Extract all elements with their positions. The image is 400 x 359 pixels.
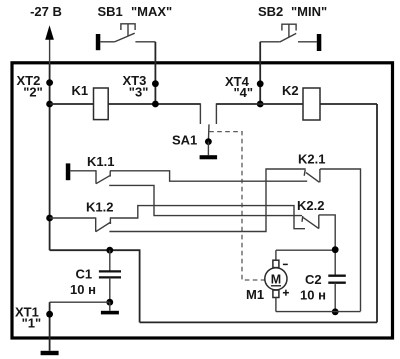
wire bus XT2 to K1 coil: [50, 103, 94, 105]
wire SB1 right lead: [135, 41, 155, 43]
node SA1: [205, 138, 212, 145]
svg-text:SB2: SB2: [258, 4, 283, 19]
capacitor C1: [99, 250, 121, 302]
label minus: [283, 263, 288, 265]
wire K1.1 upper to K2.1 lower-left: [110, 171, 307, 181]
node XT1: [46, 311, 53, 318]
mechanical link SA1 to M1 (dashed): [209, 132, 265, 280]
node K1.2 left junction: [46, 215, 53, 222]
svg-text:-27 В: -27 В: [30, 4, 62, 19]
chassis bar under C1: [101, 302, 119, 314]
wire SB1 down to XT3: [154, 42, 156, 104]
border frame of unit: [12, 63, 393, 338]
svg-text:K1.1: K1.1: [87, 154, 114, 169]
button SB1 terminal bar: [96, 34, 101, 50]
svg-text:10 н: 10 н: [70, 282, 96, 297]
svg-text:"4": "4": [234, 85, 254, 100]
svg-text:SA1: SA1: [172, 133, 197, 148]
relay coil K2: [303, 88, 320, 120]
svg-text:K1: K1: [72, 83, 89, 98]
relay coil K1: [94, 88, 109, 120]
svg-text:K2: K2: [282, 83, 299, 98]
wire XT1 vertical: [49, 302, 51, 351]
svg-text:K1.2: K1.2: [86, 200, 113, 215]
node XT4: [257, 80, 264, 87]
wire bottom rail: [140, 321, 377, 323]
node XT4 bus junction: [257, 101, 264, 108]
svg-text:M: M: [271, 272, 281, 286]
contact K1.1 terminal bar: [66, 163, 71, 180]
svg-text:10 н: 10 н: [300, 288, 326, 303]
wire K1.2 lower to K2.1 upper-left: [109, 169, 305, 232]
wire K2.2 right down to C2 top node: [319, 215, 335, 276]
wire SB2 left lead: [260, 41, 280, 43]
contact SB2 movable: [280, 33, 297, 42]
switch SA1 right fixed contact: [215, 103, 217, 124]
supply arrow: [45, 25, 54, 64]
switch SA1 stem and bar: [200, 142, 218, 160]
wire motor bottom line: [276, 311, 361, 313]
wire bus K1 coil to SA1 left: [108, 103, 200, 105]
ground XT1: [41, 351, 59, 355]
wire motor top line: [276, 249, 335, 251]
svg-text:M1: M1: [246, 287, 264, 302]
wire bus K2 coil to right drop: [320, 103, 377, 105]
node C1 top: [106, 247, 113, 254]
node C2 bottom: [332, 308, 339, 315]
wire SB2 right lead: [298, 41, 317, 43]
switch SA1 movable contact: [207, 124, 210, 141]
wire -27V left rail vertical: [49, 64, 51, 250]
button SB2 terminal bar: [317, 34, 322, 51]
wire XT1 to C1 bottom: [50, 301, 110, 303]
svg-text:K2.2: K2.2: [297, 198, 324, 213]
node C2 top: [332, 246, 339, 253]
wire K2.1 right to motor lower line: [320, 169, 361, 311]
contact K1.2: [50, 217, 111, 231]
label plus: [283, 290, 289, 296]
svg-text:C1: C1: [76, 267, 93, 282]
contact K1.1: [70, 170, 110, 184]
svg-text:"MIN": "MIN": [291, 4, 327, 19]
contact SB1 movable: [114, 33, 135, 42]
motor M1: [265, 250, 287, 311]
capacitor C2: [328, 276, 346, 312]
wire SB1 left lead: [100, 41, 114, 43]
node XT3: [152, 80, 159, 87]
svg-text:"2": "2": [23, 85, 43, 100]
node XT2 bus junction: [46, 101, 53, 108]
wire right rail down from K2 coil: [376, 104, 378, 322]
button SB2 actuator: [282, 24, 296, 37]
svg-text:SB1: SB1: [98, 4, 123, 19]
svg-text:K2.1: K2.1: [298, 152, 325, 167]
node XT2: [46, 79, 53, 86]
switch SA1 left fixed contact: [199, 103, 201, 124]
svg-text:C2: C2: [305, 272, 322, 287]
wire SB2 down to XT4: [259, 42, 261, 104]
contact K2.2: [302, 215, 319, 229]
svg-text:"3": "3": [129, 84, 149, 99]
button SB1 actuator: [121, 24, 135, 36]
wire K1.1 lower to K2.2 upper-left: [109, 185, 302, 215]
wire K1.2 upper to K2.2 lower-left: [110, 206, 305, 229]
node XT3 bus junction: [152, 101, 159, 108]
contact K2.1: [304, 169, 320, 182]
node C1 bottom: [106, 299, 113, 306]
wire -27V rail corner to bottom rail: [50, 250, 140, 322]
svg-text:"MAX": "MAX": [131, 4, 172, 19]
svg-text:"1": "1": [22, 315, 42, 330]
wire bus SA1 to K2 coil: [216, 103, 303, 105]
